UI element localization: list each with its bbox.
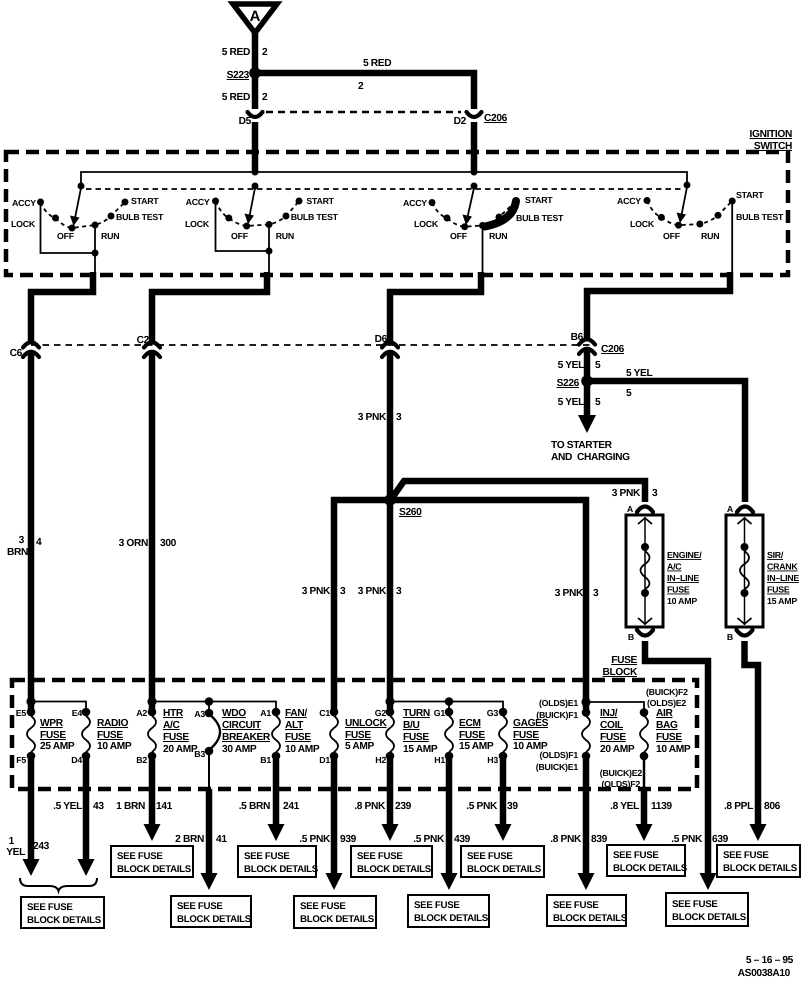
svg-text:RUN: RUN: [489, 231, 507, 241]
svg-text:A: A: [727, 504, 734, 514]
svg-text:E5: E5: [16, 708, 27, 718]
svg-text:SEE FUSE: SEE FUSE: [553, 900, 599, 911]
svg-text:E4: E4: [72, 708, 83, 718]
svg-text:A3: A3: [194, 709, 205, 719]
svg-text:B: B: [628, 632, 634, 642]
svg-text:15 AMP: 15 AMP: [459, 741, 494, 752]
svg-text:D4: D4: [71, 755, 82, 765]
fuse TURN B/U 15A: [375, 708, 438, 765]
label 3 PNK 3 (above S260): [358, 412, 402, 423]
svg-text:39: 39: [507, 801, 518, 812]
svg-text:3 ORN: 3 ORN: [119, 538, 148, 549]
svg-text:SEE FUSE: SEE FUSE: [244, 851, 290, 862]
svg-text:239: 239: [395, 801, 412, 812]
fuse HTR A/C 20A: [136, 708, 198, 765]
svg-text:1139: 1139: [651, 801, 672, 812]
svg-text:FUSE: FUSE: [163, 732, 189, 743]
svg-text:839: 839: [591, 834, 608, 845]
power triangle A: [233, 4, 277, 33]
svg-text:FUSE: FUSE: [513, 730, 539, 741]
svg-text:H3: H3: [487, 755, 498, 765]
fuse AIR BAG 10A: [600, 687, 691, 789]
svg-text:(BUICK)F1: (BUICK)F1: [536, 710, 578, 720]
svg-text:RUN: RUN: [701, 231, 719, 241]
svg-text:FUSE: FUSE: [97, 730, 123, 741]
connector D6: [375, 334, 398, 357]
svg-text:SEE FUSE: SEE FUSE: [177, 901, 223, 912]
svg-text:141: 141: [156, 801, 173, 812]
svg-text:BULB TEST: BULB TEST: [291, 212, 339, 222]
detail box 7 (ECM): [408, 895, 489, 927]
svg-text:BLOCK DETAILS: BLOCK DETAILS: [467, 864, 542, 875]
svg-text:2: 2: [358, 81, 364, 92]
svg-text:15 AMP: 15 AMP: [767, 596, 797, 606]
detail box 12 (SIR B): [717, 845, 800, 877]
ignition switch box: [6, 152, 788, 275]
svg-text:(BUICK)E1: (BUICK)E1: [536, 762, 579, 772]
svg-text:FUSE: FUSE: [611, 655, 637, 666]
label .5 YEL 43: [53, 801, 104, 812]
svg-text:D1: D1: [319, 755, 330, 765]
svg-text:FUSE: FUSE: [403, 732, 429, 743]
wire C6 to fuse block E5: [28, 353, 35, 710]
svg-text:WPR: WPR: [40, 718, 64, 729]
svg-text:SEE FUSE: SEE FUSE: [672, 899, 718, 910]
wire D4 out: [78, 759, 95, 876]
svg-text:ACCY: ACCY: [186, 197, 210, 207]
wire H3 out: [495, 759, 512, 841]
svg-text:LOCK: LOCK: [630, 219, 655, 229]
label .5 PNK 939: [299, 834, 356, 845]
svg-text:5 RED: 5 RED: [222, 92, 250, 103]
svg-text:5 YEL: 5 YEL: [626, 368, 653, 379]
fuse WPR 25A: [16, 708, 75, 765]
svg-text:C6: C6: [10, 348, 23, 359]
svg-text:BLOCK DETAILS: BLOCK DETAILS: [357, 864, 432, 875]
svg-text:START: START: [525, 195, 553, 205]
svg-text:FAN/: FAN/: [285, 708, 307, 719]
wire H1 out: [441, 759, 458, 890]
connector D5: [239, 112, 263, 127]
fuse FAN/ALT 10A: [260, 708, 320, 765]
svg-text:3 PNK: 3 PNK: [555, 588, 584, 599]
svg-text:BLOCK DETAILS: BLOCK DETAILS: [117, 864, 192, 875]
wire S223 to D5: [252, 76, 259, 109]
label TO STARTER AND CHARGING: [551, 440, 630, 463]
svg-text:ECM: ECM: [459, 718, 481, 729]
svg-text:B: B: [727, 632, 733, 642]
wire B3 out: [201, 754, 218, 890]
wire SW2 to C2: [152, 272, 267, 341]
node S226 (redraw): [581, 375, 593, 387]
wire S260 right to INJ E1: [390, 500, 586, 710]
wire SW4 to B6: [587, 272, 730, 338]
label 5 YEL 5 (below S226): [558, 397, 601, 408]
svg-text:10 AMP: 10 AMP: [97, 741, 132, 752]
svg-text:OFF: OFF: [57, 231, 75, 241]
detail box 10 (AIRBAG): [607, 845, 688, 876]
wire SW1 to C6: [31, 272, 93, 341]
svg-text:2: 2: [262, 47, 268, 58]
svg-text:G2: G2: [375, 708, 387, 718]
circuit breaker WDO 30A: [194, 708, 271, 759]
svg-text:10 AMP: 10 AMP: [656, 744, 691, 755]
svg-text:SEE FUSE: SEE FUSE: [117, 851, 163, 862]
label 1 BRN 141: [116, 801, 172, 812]
detail box 6 (TURN): [351, 846, 432, 877]
arrowhead ENGINE B wire: [700, 873, 717, 890]
svg-text:FUSE: FUSE: [667, 585, 690, 595]
connector C2: [137, 335, 160, 357]
svg-text:5 – 16 – 95: 5 – 16 – 95: [746, 955, 794, 966]
node INJ junction + bridge to AIR BAG: [581, 697, 644, 710]
detail box 9 (INJ): [547, 895, 628, 926]
svg-text:FUSE: FUSE: [656, 732, 682, 743]
svg-text:5 YEL: 5 YEL: [558, 360, 585, 371]
wire B1 out: [268, 759, 285, 841]
svg-text:ALT: ALT: [285, 720, 304, 731]
svg-text:.5 PNK: .5 PNK: [299, 834, 331, 845]
node bus-D5: [252, 169, 259, 176]
svg-text:25 AMP: 25 AMP: [40, 741, 75, 752]
svg-text:SEE FUSE: SEE FUSE: [27, 902, 73, 913]
wire AIRBAG out: [636, 759, 653, 841]
svg-text:3 PNK: 3 PNK: [612, 488, 641, 499]
svg-text:.5 PNK: .5 PNK: [671, 834, 703, 845]
svg-text:S223: S223: [227, 70, 250, 81]
label 1 YEL 243: [6, 836, 49, 858]
svg-text:A2: A2: [136, 708, 147, 718]
svg-text:B2: B2: [136, 755, 147, 765]
in-line fuse F-SIR (SIR/CRANK): [726, 504, 799, 642]
svg-text:15 AMP: 15 AMP: [403, 744, 438, 755]
svg-text:5 YEL: 5 YEL: [558, 397, 585, 408]
svg-text:.8 PNK: .8 PNK: [354, 801, 386, 812]
dashed link D5 to D2: [266, 111, 461, 114]
label 3 PNK 3 (engine branch): [612, 488, 658, 499]
svg-text:A: A: [250, 8, 261, 25]
svg-text:OFF: OFF: [450, 231, 468, 241]
wire D1 out: [326, 759, 343, 890]
svg-text:BLOCK DETAILS: BLOCK DETAILS: [27, 915, 102, 926]
wire S226 down: [584, 384, 591, 417]
svg-text:C206: C206: [601, 344, 625, 355]
svg-text:OFF: OFF: [231, 231, 249, 241]
svg-text:3 PNK: 3 PNK: [358, 586, 387, 597]
svg-text:RUN: RUN: [276, 231, 294, 241]
svg-text:SEE FUSE: SEE FUSE: [414, 900, 460, 911]
label .5 BRN 241: [239, 801, 300, 812]
svg-text:B3: B3: [194, 749, 205, 759]
svg-text:START: START: [736, 190, 764, 200]
svg-text:SIR/: SIR/: [767, 550, 784, 560]
svg-text:BULB TEST: BULB TEST: [116, 212, 164, 222]
svg-text:S260: S260: [399, 507, 422, 518]
svg-text:BLOCK: BLOCK: [603, 667, 638, 678]
svg-text:BLOCK DETAILS: BLOCK DETAILS: [300, 914, 375, 925]
svg-text:ACCY: ACCY: [403, 198, 427, 208]
wire H2 out: [382, 759, 399, 841]
svg-text:OFF: OFF: [663, 231, 681, 241]
svg-text:C1: C1: [319, 708, 330, 718]
svg-text:BLOCK DETAILS: BLOCK DETAILS: [723, 863, 798, 874]
svg-text:939: 939: [340, 834, 357, 845]
svg-text:LOCK: LOCK: [185, 219, 210, 229]
detail box 8 (GAGES): [461, 846, 544, 877]
svg-text:(BUICK)E2: (BUICK)E2: [600, 768, 643, 778]
svg-text:START: START: [131, 196, 159, 206]
switch SW1: [11, 183, 164, 273]
arrowhead SIR B wire: [750, 824, 767, 841]
svg-text:BLOCK DETAILS: BLOCK DETAILS: [244, 864, 319, 875]
svg-text:C206: C206: [484, 113, 508, 124]
svg-text:3: 3: [396, 412, 402, 423]
svg-text:5 RED: 5 RED: [363, 58, 391, 69]
svg-text:.8 PNK: .8 PNK: [550, 834, 582, 845]
node A2 junction + bridge to A3 A1: [147, 697, 276, 711]
svg-text:10 AMP: 10 AMP: [667, 596, 697, 606]
svg-text:B1: B1: [260, 755, 271, 765]
wire C2 to fuse block A2: [149, 353, 156, 710]
svg-text:SEE FUSE: SEE FUSE: [300, 901, 346, 912]
svg-text:30 AMP: 30 AMP: [222, 744, 257, 755]
svg-text:5 RED: 5 RED: [222, 47, 250, 58]
svg-text:FUSE: FUSE: [459, 730, 485, 741]
fuse GAGES 10A: [487, 708, 549, 765]
fuse RADIO 10A: [71, 708, 132, 765]
svg-text:3: 3: [652, 488, 658, 499]
svg-text:UNLOCK: UNLOCK: [345, 718, 387, 729]
label 5 RED 2 (lower): [222, 92, 268, 103]
svg-text:FUSE: FUSE: [40, 730, 66, 741]
feed bus (dashed): [86, 188, 683, 190]
svg-text:SEE FUSE: SEE FUSE: [357, 851, 403, 862]
svg-text:300: 300: [160, 538, 177, 549]
svg-text:IN–LINE: IN–LINE: [767, 573, 799, 583]
svg-text:LOCK: LOCK: [414, 219, 439, 229]
svg-text:F5: F5: [16, 755, 26, 765]
svg-text:ACCY: ACCY: [12, 198, 36, 208]
svg-text:IGNITION: IGNITION: [750, 129, 792, 140]
in-line fuse F-ENG (ENGINE/A/C): [626, 504, 702, 642]
label 3 BRN 4: [7, 535, 42, 558]
node E5 junction + bridge to E4: [26, 697, 86, 710]
svg-text:BLOCK DETAILS: BLOCK DETAILS: [672, 912, 747, 923]
detail box 11 (ENGINE B): [666, 893, 748, 926]
svg-text:BLOCK DETAILS: BLOCK DETAILS: [414, 913, 489, 924]
arrow to starter: [578, 415, 596, 433]
fuse ECM 15A: [434, 708, 494, 765]
wire S260 to ENGINE fuse A: [392, 481, 645, 502]
svg-text:D5: D5: [239, 116, 252, 127]
svg-text:A/C: A/C: [163, 720, 180, 731]
svg-text:SEE FUSE: SEE FUSE: [723, 850, 769, 861]
label .8 YEL 1139: [610, 801, 672, 812]
svg-text:FUSE: FUSE: [285, 732, 311, 743]
svg-text:.8 PPL: .8 PPL: [724, 801, 753, 812]
fuse UNLOCK 5A: [319, 708, 387, 765]
detail box 4 (FAN/ALT): [238, 846, 319, 877]
svg-text:243: 243: [33, 841, 50, 852]
svg-text:RUN: RUN: [101, 231, 119, 241]
svg-text:10 AMP: 10 AMP: [285, 744, 320, 755]
svg-text:G3: G3: [487, 708, 499, 718]
svg-text:3: 3: [396, 586, 402, 597]
svg-text:.5 YEL: .5 YEL: [53, 801, 82, 812]
label .8 PNK 239: [354, 801, 411, 812]
switch SW2: [185, 183, 339, 273]
splice S223: [227, 68, 261, 82]
detail box 2 (HTR): [111, 846, 193, 877]
svg-text:806: 806: [764, 801, 781, 812]
svg-text:AS0038A10: AS0038A10: [738, 968, 791, 979]
label .5 PNK 39: [466, 801, 518, 812]
svg-text:.5 BRN: .5 BRN: [239, 801, 270, 812]
svg-text:(OLDS)E2: (OLDS)E2: [647, 698, 686, 708]
svg-text:1 BRN: 1 BRN: [116, 801, 145, 812]
svg-text:41: 41: [216, 834, 227, 845]
svg-text:20 AMP: 20 AMP: [163, 744, 198, 755]
svg-text:SEE FUSE: SEE FUSE: [467, 851, 513, 862]
connector B6 C206: [571, 332, 625, 355]
connector C6: [10, 342, 39, 359]
wire S226 to SIR fuse: [587, 381, 745, 502]
svg-text:3: 3: [593, 588, 599, 599]
label 3 PNK 3 (down branch): [358, 586, 402, 597]
switch SW4: [617, 182, 784, 273]
svg-text:CIRCUIT: CIRCUIT: [222, 720, 262, 731]
svg-text:2: 2: [262, 92, 268, 103]
splice S260: [385, 495, 423, 519]
svg-text:C2: C2: [137, 335, 150, 346]
svg-text:AND CHARGING: AND CHARGING: [551, 452, 630, 463]
svg-text:.5 PNK: .5 PNK: [466, 801, 498, 812]
svg-text:B6: B6: [571, 332, 584, 343]
svg-text:YEL: YEL: [6, 847, 25, 858]
wire S260 left to UNLOCK C1: [334, 500, 390, 710]
svg-text:COIL: COIL: [600, 720, 623, 731]
svg-text:ACCY: ACCY: [617, 196, 641, 206]
svg-text:BLOCK DETAILS: BLOCK DETAILS: [613, 863, 688, 874]
svg-text:TO STARTER: TO STARTER: [551, 440, 613, 451]
label 3 PNK 3 (left branch): [302, 586, 346, 597]
svg-text:H1: H1: [434, 755, 445, 765]
wire S260 down to TURN G2: [387, 500, 394, 710]
svg-text:FUSE: FUSE: [345, 730, 371, 741]
fuse block box: [12, 680, 697, 789]
svg-text:3 PNK: 3 PNK: [302, 586, 331, 597]
switch SW3: [403, 183, 564, 273]
label 2 BRN 41: [175, 834, 227, 845]
label IGNITION SWITCH: [750, 129, 792, 152]
feed bus (solid): [81, 172, 687, 186]
svg-text:5 AMP: 5 AMP: [345, 741, 375, 752]
svg-text:BREAKER: BREAKER: [222, 732, 271, 743]
svg-text:.8 YEL: .8 YEL: [610, 801, 639, 812]
svg-text:H2: H2: [375, 755, 386, 765]
svg-text:S226: S226: [557, 378, 580, 389]
svg-text:START: START: [306, 196, 334, 206]
svg-text:LOCK: LOCK: [11, 219, 36, 229]
svg-text:20 AMP: 20 AMP: [600, 744, 635, 755]
svg-text:FUSE: FUSE: [600, 732, 626, 743]
svg-text:D2: D2: [454, 116, 467, 127]
wire B2 out: [144, 759, 161, 841]
splice S226: [557, 376, 593, 390]
svg-text:BULB TEST: BULB TEST: [736, 212, 784, 222]
svg-text:BRN: BRN: [7, 547, 28, 558]
svg-text:1: 1: [9, 836, 15, 847]
svg-text:.5 PNK: .5 PNK: [413, 834, 445, 845]
node S260 (redraw): [384, 494, 396, 506]
svg-text:(OLDS)F2: (OLDS)F2: [601, 779, 640, 789]
wire triangle to S223: [252, 31, 259, 71]
svg-text:439: 439: [454, 834, 471, 845]
label .8 PNK 839: [550, 834, 607, 845]
svg-text:BAG: BAG: [656, 720, 678, 731]
svg-text:BULB TEST: BULB TEST: [516, 213, 564, 223]
wire INJ out: [578, 759, 595, 890]
label .5 PNK 639: [671, 834, 728, 845]
label 5 RED 2 (upper): [222, 47, 268, 58]
svg-text:A/C: A/C: [667, 562, 682, 572]
detail box 5 (UNLOCK): [294, 896, 376, 928]
svg-text:(OLDS)F1: (OLDS)F1: [539, 750, 578, 760]
connector D2 C206: [454, 112, 508, 127]
svg-text:5: 5: [626, 388, 632, 399]
svg-text:AIR: AIR: [656, 708, 673, 719]
svg-text:BLOCK DETAILS: BLOCK DETAILS: [553, 913, 628, 924]
svg-text:D6: D6: [375, 334, 388, 345]
svg-text:CRANK: CRANK: [767, 562, 798, 572]
wire D2 into switch box: [471, 122, 478, 173]
svg-text:(OLDS)E1: (OLDS)E1: [539, 698, 578, 708]
label 3 ORN 300: [119, 538, 177, 549]
svg-text:43: 43: [93, 801, 104, 812]
svg-text:HTR: HTR: [163, 708, 184, 719]
svg-text:(BUICK)F2: (BUICK)F2: [646, 687, 688, 697]
svg-text:WDO: WDO: [222, 708, 246, 719]
node bus-D2: [471, 169, 478, 176]
svg-text:3 PNK: 3 PNK: [358, 412, 387, 423]
svg-text:241: 241: [283, 801, 300, 812]
svg-text:2 BRN: 2 BRN: [175, 834, 204, 845]
wire S223 branch to D2: [255, 73, 474, 109]
node G2 junction + bridge to G1 G3: [385, 697, 503, 710]
svg-text:INJ/: INJ/: [600, 708, 618, 719]
wire D6 to S260: [387, 353, 394, 499]
wire ENGINE B down: [645, 641, 708, 873]
svg-text:5: 5: [595, 397, 601, 408]
detail box 1 (WPR/RADIO): [21, 897, 104, 928]
svg-text:639: 639: [712, 834, 729, 845]
wire F5 out: [23, 759, 40, 876]
svg-text:A: A: [627, 504, 634, 514]
svg-text:G1: G1: [434, 708, 446, 718]
label FUSE BLOCK: [603, 655, 638, 678]
label .5 PNK 439: [413, 834, 470, 845]
label 5 YEL 5 (above S226): [558, 360, 601, 371]
svg-text:ENGINE/: ENGINE/: [667, 550, 702, 560]
svg-text:B/U: B/U: [403, 720, 420, 731]
svg-text:3: 3: [340, 586, 346, 597]
node S223 (redraw): [249, 67, 261, 79]
svg-text:A1: A1: [260, 708, 271, 718]
connector row dashed line: [31, 344, 597, 346]
brace: [20, 878, 97, 891]
svg-text:SWITCH: SWITCH: [754, 141, 792, 152]
svg-text:TURN: TURN: [403, 708, 430, 719]
